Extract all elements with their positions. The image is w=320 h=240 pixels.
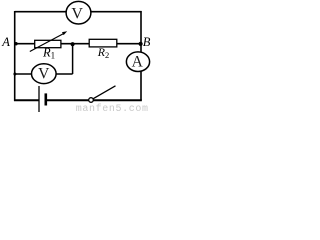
wire right vertical bbox=[140, 11, 142, 101]
wire voltmeter V2 horizontal branch bbox=[15, 73, 73, 75]
wire bottom right (battery to switch to right rail) bbox=[47, 99, 142, 101]
svg-text:A: A bbox=[132, 54, 144, 71]
node B junction dot bbox=[139, 42, 143, 46]
wire voltmeter V2 vertical branch bbox=[72, 44, 74, 74]
battery (cell): long plate bbox=[38, 86, 40, 112]
voltmeter V1 (top) bbox=[66, 1, 91, 24]
wire top (A-side top rail to B-side) bbox=[15, 11, 142, 13]
wire bottom left (to battery) bbox=[14, 99, 39, 101]
resistor R1 (rheostat box) bbox=[30, 31, 67, 51]
background bbox=[0, 0, 153, 112]
svg-text:B: B bbox=[143, 35, 151, 49]
svg-text:V: V bbox=[71, 6, 83, 23]
node A junction dot bbox=[14, 42, 17, 45]
resistor R2 bbox=[89, 39, 117, 47]
junction dot between R1 and R2 bbox=[71, 42, 75, 46]
ammeter A (right branch) bbox=[126, 52, 149, 72]
svg-text:A: A bbox=[1, 35, 10, 49]
wire left vertical bbox=[14, 11, 16, 101]
switch S (open knife switch) bbox=[89, 86, 116, 102]
battery (cell): short thick plate bbox=[44, 93, 47, 105]
svg-text:manfen5.com: manfen5.com bbox=[76, 103, 149, 112]
wire middle row A to B bbox=[15, 43, 141, 45]
voltmeter V2 (across R1) bbox=[32, 64, 57, 84]
junction dot V2 branch on left rail bbox=[13, 73, 16, 76]
svg-text:V: V bbox=[38, 66, 50, 83]
